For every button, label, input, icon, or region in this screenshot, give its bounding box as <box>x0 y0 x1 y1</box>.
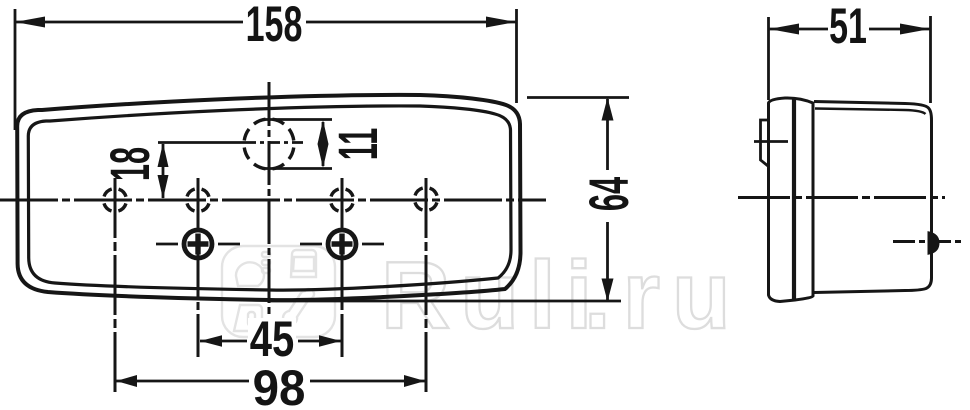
bulb hole circle <box>244 119 294 169</box>
hole H4 <box>415 188 438 211</box>
hole H2 <box>187 189 210 212</box>
dim 98 line <box>116 380 249 383</box>
side view body outline <box>814 102 932 293</box>
dim 18 arrows <box>158 143 169 167</box>
dim text 98 <box>250 361 308 410</box>
side view tab centerline <box>754 140 788 143</box>
dim 158 extension line left <box>14 9 17 130</box>
bulb circle centerline <box>244 141 303 144</box>
dim 98 arrows <box>116 375 137 387</box>
dim 51 extension line right <box>929 16 932 103</box>
hole H1 <box>104 189 127 212</box>
svg-text:51: 51 <box>829 0 867 55</box>
svg-text:158: 158 <box>246 0 303 53</box>
dim 64 extension bottom <box>270 300 621 303</box>
dim 11 extension bottom <box>263 167 332 170</box>
dim 51 arrows <box>769 24 799 35</box>
svg-text:11: 11 <box>326 128 389 161</box>
svg-text:98: 98 <box>253 361 306 410</box>
side view screw centerline <box>893 240 965 243</box>
side view screw bump <box>929 233 938 253</box>
dim 45 line <box>200 340 247 343</box>
side view mounting tab <box>761 120 769 166</box>
svg-text:64: 64 <box>577 177 640 211</box>
dim 11 arrow line <box>322 122 325 166</box>
dim 18 reference line <box>158 141 244 144</box>
svg-text:18: 18 <box>98 147 161 181</box>
dim text 64 <box>577 170 640 222</box>
dim 64 arrow line <box>606 99 609 170</box>
dim 64 arrows <box>602 98 614 121</box>
side view body inner top line <box>815 109 926 115</box>
dim 158 arrows <box>15 17 45 28</box>
dim 11 arrows <box>318 120 329 144</box>
side view lens outline <box>769 98 814 302</box>
dim 64 extension top <box>527 96 629 99</box>
horizontal centerline <box>0 199 546 202</box>
svg-text:45: 45 <box>250 311 294 367</box>
screw S2 <box>328 230 356 258</box>
side view lens joint line <box>792 99 796 301</box>
dim 158 extension line right <box>515 9 518 103</box>
dim 51 extension line left <box>767 17 770 100</box>
hole H3 <box>331 189 354 212</box>
side view horizontal centerline <box>738 196 945 199</box>
lamp front view inner outline <box>28 106 511 290</box>
dim 45 arrows <box>200 335 222 347</box>
vertical centerline <box>268 82 271 327</box>
dim 18 arrow line <box>162 144 165 198</box>
dim text 45 <box>248 311 296 367</box>
dim 51 line <box>769 28 828 31</box>
dim 11 extension top <box>263 118 332 121</box>
dim 158 line <box>15 21 243 24</box>
lamp front view outer outline <box>17 95 520 300</box>
screw S1 <box>184 230 212 258</box>
watermark logo icon <box>222 246 335 337</box>
